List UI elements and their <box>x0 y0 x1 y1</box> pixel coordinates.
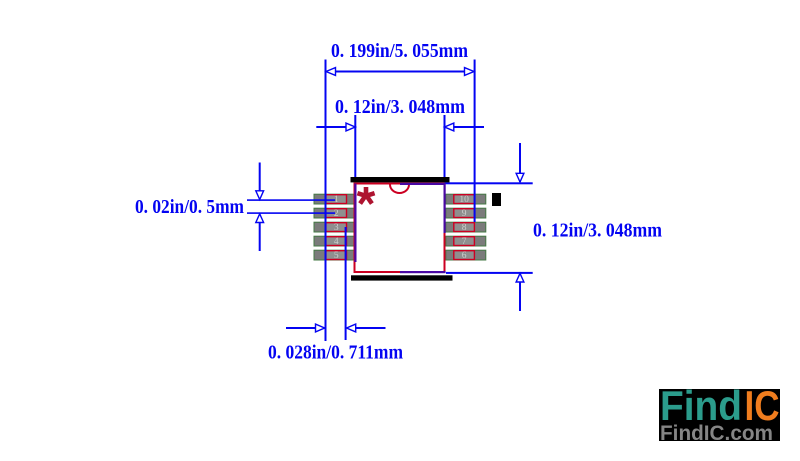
pin 9 <box>454 209 475 218</box>
overlap body top edge <box>400 183 445 185</box>
svg-text:5: 5 <box>334 251 339 261</box>
svg-text:2: 2 <box>334 209 339 219</box>
dimension line 0.028in left arrow <box>286 327 316 329</box>
pin 7 <box>454 237 475 246</box>
dimension line 0.02in vertical upper <box>259 163 261 198</box>
polarity marker square <box>492 193 501 206</box>
pad 8 <box>446 222 486 232</box>
dimension line 0.12in right segment <box>454 126 485 128</box>
arrowhead pointing up <box>256 214 264 223</box>
arrowhead left outward <box>326 68 336 76</box>
pin 4 <box>326 237 347 246</box>
pad 5 <box>314 250 354 260</box>
svg-text:6: 6 <box>462 251 467 261</box>
pad 10 <box>446 194 486 204</box>
svg-text:10: 10 <box>459 195 469 205</box>
pin 10 <box>454 195 475 204</box>
svg-text:0. 028in/0. 711mm: 0. 028in/0. 711mm <box>268 342 403 364</box>
pin 5 <box>326 251 347 260</box>
pad 4 <box>314 236 354 246</box>
arrowhead pointing up <box>516 273 524 282</box>
overlap body left edge <box>354 184 356 263</box>
overlap body bottom edge <box>400 271 446 273</box>
extension line bottom right <box>446 272 533 274</box>
pin 2 <box>326 209 347 218</box>
svg-text:4: 4 <box>334 237 339 247</box>
pin-1 marker asterisk <box>357 187 374 204</box>
dimension line 0.12in right vertical upper <box>519 143 521 182</box>
dimension line 0.02in vertical lower <box>259 215 261 252</box>
pin 6 <box>454 251 475 260</box>
dimension line 0.199in horizontal <box>326 71 474 73</box>
pad 7 <box>446 236 486 246</box>
pad 1 <box>314 194 354 204</box>
extension line body left <box>354 115 356 177</box>
dimension line 0.12in right vertical lower <box>519 274 521 311</box>
logo background <box>659 389 780 441</box>
pad 9 <box>446 208 486 218</box>
leader line pin1 center <box>247 199 335 201</box>
pin 3 <box>326 223 347 232</box>
svg-text:8: 8 <box>462 223 467 233</box>
pin 8 <box>454 223 475 232</box>
arrowhead right outward <box>465 68 475 76</box>
pin 1 <box>326 195 347 204</box>
svg-text:FindIC.com: FindIC.com <box>660 422 773 445</box>
dimension line 0.028in right arrow <box>356 327 386 329</box>
pad 6 <box>446 250 486 260</box>
extension line body right <box>444 115 446 177</box>
arrowhead pointing left <box>445 123 454 131</box>
svg-text:0. 199in/5. 055mm: 0. 199in/5. 055mm <box>331 40 468 62</box>
svg-text:3: 3 <box>334 223 339 233</box>
pad 3 <box>314 222 354 232</box>
arrowhead pointing down <box>256 191 264 200</box>
extension line pin inner edge <box>345 227 347 340</box>
extension line right pin tip <box>474 60 476 223</box>
body top edge bar <box>351 177 450 182</box>
leader line pin2 center <box>247 212 335 214</box>
overlap body right edge <box>444 183 446 233</box>
extension line left pin tip <box>325 60 327 342</box>
svg-text:0. 02in/0. 5mm: 0. 02in/0. 5mm <box>135 196 244 218</box>
pad 2 <box>314 208 354 218</box>
dimension line 0.12in left segment <box>316 126 346 128</box>
extension line top right <box>445 182 533 184</box>
svg-text:7: 7 <box>462 237 467 247</box>
arrowhead pointing right <box>346 123 355 131</box>
body bottom edge bar <box>351 275 453 280</box>
body outline <box>355 184 445 273</box>
svg-text:9: 9 <box>462 209 467 219</box>
svg-text:0. 12in/3. 048mm: 0. 12in/3. 048mm <box>533 220 662 242</box>
orientation notch <box>390 185 409 194</box>
arrowhead pointing down <box>516 173 524 182</box>
svg-text:0. 12in/3. 048mm: 0. 12in/3. 048mm <box>335 96 465 118</box>
arrowhead pointing right <box>316 324 325 332</box>
arrowhead pointing left <box>347 324 356 332</box>
